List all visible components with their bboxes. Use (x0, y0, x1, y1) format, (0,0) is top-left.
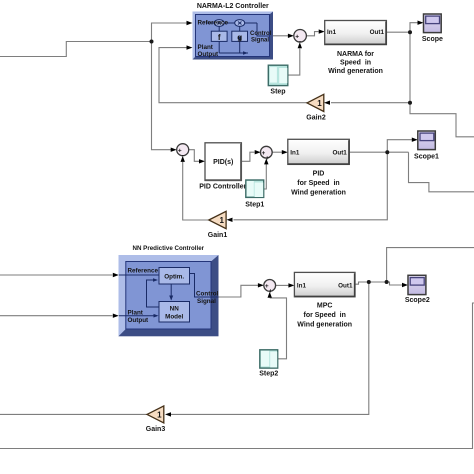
svg-text:PID: PID (313, 171, 325, 178)
svg-text:+: + (269, 288, 273, 295)
svg-text:Optim.: Optim. (164, 274, 184, 281)
svg-text:In1: In1 (290, 150, 300, 157)
svg-text:Gain1: Gain1 (208, 232, 228, 239)
svg-text:Wind generation: Wind generation (328, 68, 383, 75)
svg-text:Out1: Out1 (332, 150, 347, 157)
svg-text:PID(s): PID(s) (213, 159, 233, 166)
svg-text:Gain2: Gain2 (306, 115, 326, 122)
svg-text:1: 1 (317, 99, 322, 108)
svg-text:NARMA-L2 Controller: NARMA-L2 Controller (197, 3, 269, 10)
svg-text:1: 1 (157, 410, 162, 419)
svg-text:Step2: Step2 (259, 370, 278, 377)
svg-text:Step1: Step1 (245, 201, 264, 208)
svg-text:Speed in: Speed in (340, 59, 371, 66)
svg-text:Scope1: Scope1 (414, 154, 439, 161)
svg-text:Out1: Out1 (338, 282, 353, 289)
svg-text:Wind generation: Wind generation (291, 190, 346, 197)
svg-text:PID Controller: PID Controller (199, 183, 246, 190)
svg-text:Signal: Signal (197, 298, 216, 305)
svg-text:Wind generation: Wind generation (297, 322, 352, 329)
svg-text:1: 1 (219, 216, 224, 225)
svg-text:NN: NN (170, 306, 180, 313)
svg-text:-: - (182, 153, 184, 160)
svg-text:-: - (299, 39, 301, 46)
svg-text:Output: Output (198, 51, 220, 58)
svg-text:f: f (218, 33, 221, 42)
svg-text:Control: Control (250, 31, 272, 37)
svg-text:g: g (237, 33, 242, 42)
svg-text:Out1: Out1 (370, 29, 385, 36)
svg-text:Model: Model (165, 314, 183, 321)
svg-text:Gain3: Gain3 (146, 426, 166, 433)
svg-text:NARMA for: NARMA for (337, 51, 374, 58)
svg-text:In1: In1 (297, 282, 307, 289)
svg-text:Signal: Signal (251, 37, 269, 43)
svg-text:+: + (265, 155, 269, 162)
svg-text:Reference: Reference (198, 20, 229, 27)
svg-text:Scope: Scope (422, 36, 443, 43)
svg-text:Reference: Reference (128, 267, 159, 274)
svg-text:NN Predictive Controller: NN Predictive Controller (133, 245, 205, 252)
svg-text:for Speed in: for Speed in (303, 312, 345, 319)
svg-text:Step: Step (270, 89, 285, 96)
svg-text:Scope2: Scope2 (405, 297, 430, 304)
svg-text:Control: Control (196, 290, 219, 297)
svg-text:for Speed in: for Speed in (297, 180, 339, 187)
svg-text:Output: Output (128, 317, 150, 324)
svg-text:MPC: MPC (317, 303, 333, 310)
svg-text:In1: In1 (327, 29, 337, 36)
svg-text:Plant: Plant (128, 309, 144, 316)
